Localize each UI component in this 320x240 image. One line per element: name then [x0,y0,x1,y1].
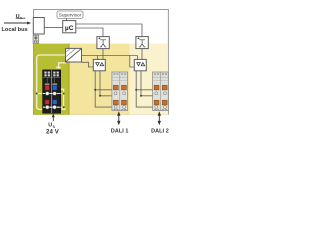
screw 1.2 [155,105,158,108]
terminal 2.1 (blue) [53,86,57,91]
wire: supply 1 to transceiver 1 [102,49,104,60]
wire: microcontroller to DALI 1 supply [76,28,103,37]
microcontroller U1 [63,21,76,33]
screw 2.1 [163,92,166,95]
wire: transceiver 1 to DALI 1 terminals row 2 [95,71,124,107]
svg-text:DALI 2: DALI 2 [151,129,169,135]
DALI 2 connector X3 (gray) [153,72,169,111]
junction DALI 2 second output [140,95,142,97]
wire: DALI 2 row 1 jumper [153,92,165,94]
wire: bus interface to microcontroller [44,27,62,29]
svg-text:24 V: 24 V [46,129,59,135]
DALI transceiver U5 [93,59,105,70]
svg-text:S: S [53,125,55,129]
release levers [45,83,50,85]
junction on 24V row 1 right [63,93,65,95]
terminal 2.2 (blue) [53,100,57,105]
svg-text:Local bus: Local bus [2,27,28,33]
wire: row 2 through screws [43,106,61,108]
node: Us 24V supply arrow [52,116,54,121]
module outline [34,10,169,115]
wire: branch to DALI 2 terminals row 1 [136,89,157,91]
power converter T1 (DC/DC) [66,48,82,62]
wire: feed A drop to transceiver 1 [97,56,99,60]
wire: converter feed A to DALI supplies [82,55,138,57]
DALI transceiver U6 [134,59,146,70]
terminal 2.1 DA [122,85,127,90]
DALI 2 isolation area (pale yellow) [130,44,168,115]
terminal 1.1 DA [154,85,159,90]
svg-text:µC: µC [65,25,74,32]
wire: microcontroller to DALI 2 supply [76,24,142,37]
24V supply connector X1 (black) [43,70,61,113]
junction on 24V row 2 right [63,106,65,108]
wire: right return conductor [60,89,64,108]
wire: supply feed from converter around 24V connector [37,55,66,109]
svg-text:DALI 1: DALI 1 [111,129,129,135]
wire: local bus arrow into bus interface [4,22,29,24]
bus interface U10 [33,18,44,35]
wire: DALI 1 row 1 jumper [113,92,125,94]
node: DALI 1 bus arrow [118,114,120,123]
wire: 24V row 1 [37,93,64,95]
screw 2.2 [53,105,57,109]
terminal 1.2 DA [154,100,159,105]
band bottom edges [34,113,70,115]
svg-text:FE: FE [34,40,38,44]
header markings [44,72,46,74]
terminal 2.1 DA [162,85,167,90]
screw 1.1 [114,92,117,95]
wire: 24V row 2 [43,106,64,108]
DALI power supply U3 [97,37,109,49]
wire: converter input stub to connector top [59,63,67,67]
junction on 24V row 1 left [36,93,38,95]
terminal 1.2 (red) [45,100,49,105]
DALI 1 isolation area (yellow) [70,44,130,115]
wire: transceiver 1 second output [100,71,124,96]
node: DALI 2 bus arrow [158,114,160,123]
screw 1.1 [45,92,49,96]
terminal 1.1 DA [113,85,118,90]
terminal 2.2 DA [162,100,167,105]
DALI power supply U4 [136,37,148,49]
wire: feed A drop to transceiver 2 left input [130,56,135,68]
wire: branch to DALI 1 terminals row 1 [95,89,116,91]
svg-text:Supervisor: Supervisor [59,13,82,18]
junction DALI 1 second output [99,95,101,97]
terminal 1.2 DA [113,100,118,105]
screw 2.1 [123,92,126,95]
terminal 2.2 DA [122,100,127,105]
screw 2.2 [163,105,166,108]
screw 1.1 [155,92,158,95]
supply isolation area (green) [34,44,70,115]
screw 1.2 [114,105,117,108]
screw 1.2 [45,105,49,109]
DALI 1 connector X2 (gray) [112,72,128,111]
svg-text:Bus: Bus [20,16,26,20]
screw 2.2 [123,105,126,108]
supervisor U2 [57,11,83,18]
junction DALI 2 branch [135,89,137,91]
wire: supervisor to microcontroller [66,18,68,20]
wire: row 1 through screws [43,93,61,95]
wire: transceiver 2 second output [141,71,165,96]
wire: converter feed B [82,62,94,67]
wire: feed A drop to transceiver 2 [137,56,139,60]
wire: supply 2 to transceiver 2 [141,49,143,60]
junction DALI 1 branch [94,89,96,91]
screw 2.1 [53,92,57,96]
terminal 1.1 (red) [45,86,49,91]
ground FE tab [33,35,39,43]
wire: transceiver 2 to DALI 2 terminals row 2 [136,71,165,107]
